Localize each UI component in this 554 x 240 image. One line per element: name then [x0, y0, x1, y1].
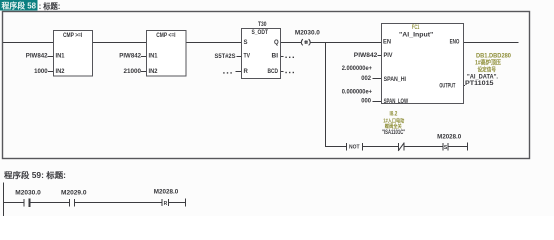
svg-text:FC1: FC1 — [412, 25, 420, 31]
svg-text:程序段 59: 标题:: 程序段 59: 标题: — [4, 170, 66, 180]
svg-text:ENO: ENO — [450, 40, 460, 46]
svg-text:T30: T30 — [258, 22, 267, 28]
svg-text:1#高炉顶压: 1#高炉顶压 — [475, 59, 501, 67]
svg-text:I8.2: I8.2 — [390, 112, 398, 118]
svg-text:CMP <=I: CMP <=I — [156, 33, 176, 39]
svg-text:S: S — [244, 40, 248, 46]
svg-text:Q: Q — [274, 40, 279, 46]
svg-text:"ISA1101C": "ISA1101C" — [382, 130, 405, 136]
svg-text:SPAN_HI: SPAN_HI — [384, 77, 407, 83]
svg-text:TV: TV — [244, 54, 251, 60]
svg-text:BI: BI — [272, 54, 279, 60]
svg-text:程序段 58: 程序段 58 — [2, 1, 37, 11]
svg-text:CMP >=I: CMP >=I — [63, 33, 83, 39]
svg-text:002: 002 — [361, 76, 371, 82]
svg-text:设定信号: 设定信号 — [478, 65, 497, 73]
svg-text:DB1.DBD280: DB1.DBD280 — [476, 53, 512, 59]
svg-text:M2028.0: M2028.0 — [437, 134, 462, 140]
svg-text:EN: EN — [383, 40, 391, 46]
svg-text:: 标题:: : 标题: — [39, 1, 61, 11]
svg-text:M2028.0: M2028.0 — [154, 189, 179, 195]
svg-text:21000: 21000 — [124, 69, 142, 75]
svg-text:R: R — [164, 201, 168, 207]
svg-text:1000: 1000 — [34, 69, 48, 75]
svg-text:IN1: IN1 — [149, 54, 159, 60]
svg-text:S5T#2S: S5T#2S — [215, 54, 236, 60]
svg-text:R: R — [244, 69, 249, 75]
svg-text:M2029.0: M2029.0 — [61, 191, 87, 197]
svg-text:2.000000e+: 2.000000e+ — [342, 66, 373, 72]
svg-text:0.000000e+: 0.000000e+ — [342, 90, 373, 96]
svg-text:IN1: IN1 — [56, 54, 66, 60]
svg-text:SPAN_LOW: SPAN_LOW — [384, 99, 409, 105]
svg-text:000: 000 — [361, 98, 371, 104]
svg-text:BCD: BCD — [268, 69, 279, 75]
svg-text:"AI_DATA".: "AI_DATA". — [467, 74, 498, 80]
svg-text:NOT: NOT — [349, 145, 360, 151]
svg-text:M2030.0: M2030.0 — [295, 31, 321, 37]
svg-text:S_ODT: S_ODT — [252, 30, 269, 36]
svg-text:M2030.0: M2030.0 — [15, 191, 41, 197]
svg-text:PT11015: PT11015 — [465, 81, 494, 87]
svg-text:PIW842: PIW842 — [26, 54, 48, 60]
svg-text:PIV: PIV — [384, 53, 393, 59]
svg-text:OUTPUT: OUTPUT — [439, 83, 455, 89]
svg-text:PIW842: PIW842 — [119, 54, 141, 60]
svg-text:IN2: IN2 — [56, 69, 66, 75]
svg-text:"AI_Input": "AI_Input" — [399, 32, 433, 38]
svg-text:PIW842: PIW842 — [354, 53, 378, 59]
svg-text:IN2: IN2 — [149, 69, 159, 75]
